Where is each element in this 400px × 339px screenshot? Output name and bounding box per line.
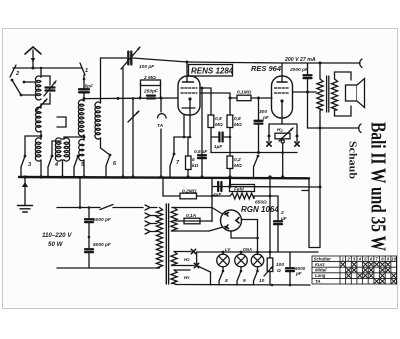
svg-text:5: 5 <box>192 157 195 163</box>
wire coupling <box>211 151 297 154</box>
svg-text:Bali II W und 35 W: Bali II W und 35 W <box>367 122 391 251</box>
power transformer primary <box>156 208 162 269</box>
svg-text:10: 10 <box>391 257 396 262</box>
coil L4 <box>95 102 101 148</box>
terminal B+ <box>360 59 362 67</box>
svg-text:1µF: 1µF <box>214 144 223 150</box>
svg-text:0,8: 0,8 <box>215 116 222 122</box>
wire anode2 RGN <box>176 227 223 231</box>
wire screen g2 <box>200 88 211 115</box>
resistor 5kΩ <box>186 137 199 177</box>
chassis bus <box>19 177 309 178</box>
terminal out <box>359 124 361 132</box>
wire mains bottom <box>57 267 158 269</box>
fuse 0,1A <box>176 213 212 224</box>
svg-text:300: 300 <box>259 109 267 115</box>
capacitor 4µF a <box>212 182 222 198</box>
svg-text:0,5µF: 0,5µF <box>194 149 208 155</box>
switch S9 <box>237 270 246 285</box>
antenna <box>25 47 41 68</box>
lamp 1 <box>217 247 232 271</box>
ground <box>18 177 33 212</box>
wire output terminal <box>308 127 360 129</box>
switch S5 <box>74 155 85 177</box>
resistor 0,8MΩ b <box>227 98 242 128</box>
wire antenna bus <box>13 67 82 70</box>
svg-text:DNA: DNA <box>243 247 252 252</box>
title Schaub <box>347 141 359 179</box>
svg-text:5000 pF: 5000 pF <box>93 242 112 248</box>
svg-text:Feld: Feld <box>234 187 245 193</box>
wire B+ top <box>186 61 361 65</box>
svg-text:TA: TA <box>157 123 164 129</box>
svg-text:RES 964: RES 964 <box>251 64 282 73</box>
capacitor 300pF <box>255 98 270 153</box>
svg-text:kΩ: kΩ <box>192 163 199 169</box>
wire reservoir <box>269 177 272 252</box>
switch S2 <box>10 65 36 96</box>
wire lamp feed <box>197 251 318 254</box>
text mains <box>42 232 72 248</box>
wire H2 return <box>197 252 211 285</box>
wire rail drop <box>211 179 213 222</box>
output transformer secondary <box>331 72 351 116</box>
wire B+ rail <box>212 177 322 189</box>
wire secondary return <box>302 178 320 247</box>
capacitor 5pF <box>79 83 94 98</box>
heater winding H2 <box>171 249 199 267</box>
svg-text:4µF: 4µF <box>212 192 222 198</box>
wire tap jog <box>57 117 66 127</box>
resistor 0,2MΩ vertical <box>227 128 242 178</box>
selector taps <box>145 205 157 234</box>
resistor 0,1MΩ <box>230 90 272 101</box>
lamp 3 <box>251 252 264 271</box>
wire anode1 RGN <box>172 208 223 215</box>
svg-text:TA: TA <box>315 279 321 284</box>
svg-text:10: 10 <box>259 278 265 284</box>
switch S7b <box>254 155 260 177</box>
capacitor 2µF <box>274 196 288 252</box>
lamp 2 <box>235 247 252 271</box>
resistor 0,2MΩ horizontal <box>180 189 230 199</box>
switch S3 <box>21 136 41 177</box>
tube RGN1064 <box>221 210 242 231</box>
svg-text:50 W: 50 W <box>48 241 64 248</box>
terminal TA <box>157 98 166 177</box>
svg-text:RENS 1284: RENS 1284 <box>191 67 234 76</box>
HV winding <box>171 208 177 232</box>
text 200V 27mA <box>284 57 316 63</box>
wire anode RENS <box>200 93 232 100</box>
coil L1a <box>35 68 41 100</box>
svg-text:MΩ: MΩ <box>234 122 242 128</box>
svg-text:Schaub: Schaub <box>347 141 359 179</box>
switch S4 <box>48 141 61 177</box>
label box RENS 1284 <box>189 65 234 77</box>
tube RENS1284 <box>178 62 200 115</box>
svg-text:Mittel: Mittel <box>315 268 327 273</box>
heater winding H1 <box>171 270 190 285</box>
power transformer core <box>166 204 168 284</box>
svg-text:Schalter: Schalter <box>314 257 332 262</box>
wire L2-L3 link <box>64 137 84 139</box>
wire mains chassis <box>79 177 81 208</box>
coil L1c <box>35 138 41 177</box>
field coil Feld <box>230 185 279 206</box>
title Bali II W und 35 W <box>367 122 391 251</box>
label RGN 1064 <box>241 205 279 214</box>
svg-text:5000 pF: 5000 pF <box>93 217 112 223</box>
svg-text:H2: H2 <box>277 127 283 133</box>
svg-text:pF: pF <box>295 271 302 276</box>
wire screen RES <box>293 92 317 128</box>
capacitor 5000pF c <box>286 252 306 285</box>
svg-text:8: 8 <box>225 278 228 284</box>
svg-text:200 V 27 mA: 200 V 27 mA <box>284 57 316 63</box>
resistor 0,8MΩ a <box>208 115 223 153</box>
tube RES964 <box>272 63 293 124</box>
wire top right drop <box>100 58 102 103</box>
output transformer primary <box>317 63 323 187</box>
label RES 964 <box>251 64 282 73</box>
trimmer arrow on L1 <box>36 99 47 111</box>
wire grid line <box>83 97 179 101</box>
capacitor 5000pF b <box>85 242 112 268</box>
transformer core <box>327 76 329 112</box>
svg-text:pF: pF <box>262 115 270 121</box>
coil L2 <box>55 138 69 177</box>
svg-text:110–220 V: 110–220 V <box>42 232 72 239</box>
svg-text:2: 2 <box>280 210 284 216</box>
capacitor 5000pF a <box>85 206 112 248</box>
switch table <box>312 256 397 284</box>
svg-text:MΩ: MΩ <box>215 122 223 128</box>
wire screen feed <box>163 177 180 196</box>
variable capacitor 100pF <box>101 47 188 70</box>
switch S7 <box>170 137 180 177</box>
svg-text:Ω: Ω <box>276 268 281 274</box>
resistor 100Ω <box>264 252 284 285</box>
svg-text:100: 100 <box>276 262 284 268</box>
svg-text:1: 1 <box>85 68 88 74</box>
bus junction dots <box>23 175 26 178</box>
potentiometer H2 <box>267 124 299 177</box>
switch S10 <box>254 270 265 285</box>
trimmer C pad2 <box>128 98 139 177</box>
capacitor 250pF <box>141 83 161 99</box>
wire heater bottom <box>176 284 310 287</box>
svg-text:2000 pF: 2000 pF <box>289 67 309 73</box>
coil L3 <box>78 99 85 177</box>
wire mains top <box>57 205 143 210</box>
wire padder 1 <box>122 68 124 177</box>
capacitor 1µF <box>211 133 230 151</box>
wire grid leak <box>201 87 204 177</box>
svg-text:0,2: 0,2 <box>234 157 241 163</box>
variable capacitor C-tune1 <box>41 76 56 104</box>
svg-text:Kurz: Kurz <box>315 262 326 267</box>
resistor 2MΩ <box>141 75 161 86</box>
capacitor 0,5µF <box>194 149 208 158</box>
speaker <box>346 79 365 108</box>
switch S1 <box>80 63 88 88</box>
coil L1b <box>36 104 43 139</box>
svg-text:MΩ: MΩ <box>234 163 242 169</box>
svg-text:0,8: 0,8 <box>234 116 241 122</box>
capacitor 2000pF <box>289 63 312 94</box>
wire cathode RGN <box>231 220 259 253</box>
wire cathode RENS <box>174 99 191 138</box>
switch S6 <box>101 148 118 177</box>
svg-text:100 pF: 100 pF <box>139 64 155 70</box>
switch S8 <box>219 270 228 285</box>
svg-text:RGN 1064: RGN 1064 <box>241 205 279 214</box>
svg-text:9: 9 <box>243 278 246 284</box>
svg-text:250pF: 250pF <box>143 89 159 95</box>
svg-text:Lang: Lang <box>315 273 326 278</box>
svg-text:0,1MΩ: 0,1MΩ <box>237 90 252 96</box>
